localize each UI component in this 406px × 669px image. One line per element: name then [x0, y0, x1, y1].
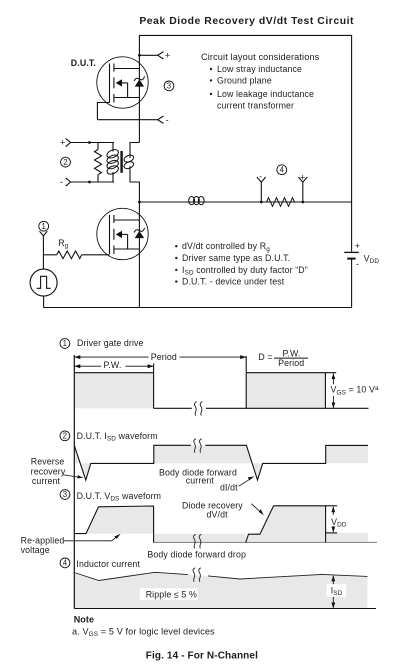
svg-text:Inductor current: Inductor current [76, 559, 140, 569]
svg-text:current: current [186, 476, 215, 486]
svg-text:Reverse: Reverse [31, 457, 65, 467]
svg-text:Rg: Rg [58, 238, 68, 250]
svg-text:4: 4 [280, 165, 285, 174]
svg-text:voltage: voltage [21, 545, 50, 555]
svg-text:1: 1 [41, 222, 45, 231]
svg-text:Driver gate drive: Driver gate drive [77, 338, 144, 348]
svg-text:Low leakage inductance: Low leakage inductance [217, 89, 314, 99]
svg-text:Period: Period [278, 358, 304, 368]
svg-text:-: - [166, 115, 169, 125]
svg-text:dI/dt: dI/dt [220, 483, 238, 493]
svg-text:Circuit layout considerations: Circuit layout considerations [201, 52, 320, 62]
svg-text:D =: D = [258, 352, 272, 362]
svg-text:current transformer: current transformer [217, 101, 294, 111]
svg-text:2: 2 [63, 158, 67, 167]
svg-text:Peak Diode Recovery dV/dt Test: Peak Diode Recovery dV/dt Test Circuit [139, 16, 354, 27]
svg-text:Ripple ≤ 5 %: Ripple ≤ 5 % [146, 589, 197, 599]
svg-text:D.U.T. VDS waveform: D.U.T. VDS waveform [77, 491, 162, 503]
svg-text:-: - [259, 172, 262, 182]
svg-text:Body diode forward drop: Body diode forward drop [147, 549, 246, 559]
svg-text:Driver same type as D.U.T.: Driver same type as D.U.T. [182, 253, 290, 263]
svg-text:D.U.T. ISD waveform: D.U.T. ISD waveform [77, 431, 158, 443]
svg-text:ISD controlled by duty factor: ISD controlled by duty factor “D” [182, 265, 308, 277]
svg-text:dV/dt controlled by Rg: dV/dt controlled by Rg [182, 241, 270, 253]
svg-text:3: 3 [63, 490, 67, 499]
svg-text:-: - [356, 259, 359, 269]
svg-text:Re-applied: Re-applied [21, 535, 65, 545]
svg-text:current: current [32, 476, 61, 486]
svg-text:Period: Period [151, 352, 177, 362]
svg-text:a. VGS = 5 V for logic level d: a. VGS = 5 V for logic level devices [72, 627, 215, 639]
svg-text:+: + [355, 241, 360, 251]
svg-text:Ground plane: Ground plane [217, 75, 272, 85]
svg-text:Low stray inductance: Low stray inductance [217, 64, 302, 74]
svg-text:Fig. 14 - For N-Channel: Fig. 14 - For N-Channel [146, 650, 258, 661]
svg-text:P.W.: P.W. [283, 348, 301, 358]
svg-text:P.W.: P.W. [104, 360, 122, 370]
svg-text:+: + [300, 173, 305, 183]
svg-text:-: - [60, 177, 63, 187]
svg-text:+: + [165, 50, 170, 60]
svg-text:2: 2 [63, 432, 67, 441]
svg-text:D.U.T. - device under test: D.U.T. - device under test [182, 277, 285, 287]
svg-text:D.U.T.: D.U.T. [71, 58, 96, 68]
svg-text:3: 3 [167, 82, 171, 91]
svg-text:1: 1 [63, 339, 67, 348]
svg-text:+: + [60, 137, 65, 147]
svg-text:dV/dt: dV/dt [207, 509, 229, 519]
svg-text:recovery: recovery [31, 466, 66, 476]
svg-text:VDD: VDD [364, 253, 380, 265]
svg-text:4: 4 [63, 559, 68, 568]
svg-text:Note: Note [74, 615, 94, 625]
